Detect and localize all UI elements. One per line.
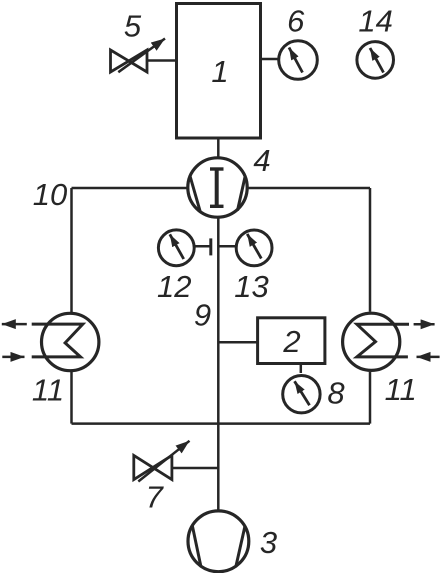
svg-text:12: 12: [157, 269, 191, 304]
gauge 6 needle: [289, 48, 303, 73]
svg-text:4: 4: [253, 143, 270, 178]
wire gauge12 stub: [194, 245, 211, 248]
wire tank1 to gauge6: [261, 58, 279, 61]
valve 5 arrow: [118, 39, 165, 73]
gauge 8: [283, 376, 320, 413]
arrow out right top: [414, 323, 435, 326]
svg-text:3: 3: [260, 525, 277, 560]
gauge 14: [357, 42, 394, 79]
svg-text:13: 13: [234, 269, 268, 304]
svg-text:14: 14: [358, 3, 392, 38]
valve 7: [134, 455, 172, 479]
wire pipe to box2: [218, 341, 257, 344]
svg-text:1: 1: [211, 54, 228, 89]
svg-text:6: 6: [287, 3, 305, 38]
wire valve7 to pipe: [172, 467, 219, 470]
arrow in right bottom: [417, 356, 440, 359]
gauge 13: [236, 230, 272, 266]
heat exchanger 11 right: [343, 313, 400, 370]
valve 7 arrow: [138, 441, 189, 482]
svg-text:5: 5: [124, 8, 142, 43]
wire center vertical pipe 9: [217, 217, 220, 424]
svg-text:9: 9: [194, 298, 211, 333]
heat exchanger 11 left: [41, 313, 98, 370]
gauge 12: [158, 230, 194, 266]
gauge 14 needle: [370, 48, 384, 73]
svg-text:2: 2: [282, 324, 300, 359]
wire top right run: [247, 187, 370, 190]
wire pipe to gauge13: [218, 245, 236, 248]
wire valve5 to tank1: [147, 59, 177, 62]
gauge 13 needle: [247, 234, 261, 259]
svg-text:10: 10: [33, 177, 67, 212]
valve 5: [111, 50, 148, 72]
wire pipe to pump3: [217, 424, 220, 510]
wire right HX down: [369, 372, 372, 424]
tick junction: [209, 238, 212, 255]
wire tank1 to compressor4: [217, 138, 220, 158]
wire left HX down: [70, 372, 73, 424]
arrow in left bottom: [2, 356, 24, 359]
pump 3: [188, 511, 249, 572]
wire right down to HX: [369, 188, 372, 312]
controller box 2: [258, 318, 325, 364]
tank 1: [177, 4, 261, 139]
arrow out left top: [2, 323, 27, 326]
svg-text:7: 7: [146, 479, 165, 514]
wire box2 to gauge8: [300, 364, 303, 374]
wire left down to HX: [70, 188, 73, 312]
gauge 6: [279, 41, 318, 80]
svg-text:11: 11: [32, 372, 64, 407]
compressor 4 piston I-bar: [210, 167, 224, 170]
wire bottom run: [72, 422, 371, 425]
svg-text:11: 11: [385, 372, 417, 407]
compressor 4: [188, 158, 247, 217]
svg-text:8: 8: [327, 376, 345, 411]
gauge 12 needle: [170, 234, 184, 259]
wire top left run: [72, 187, 189, 190]
gauge 8 needle: [295, 381, 310, 405]
